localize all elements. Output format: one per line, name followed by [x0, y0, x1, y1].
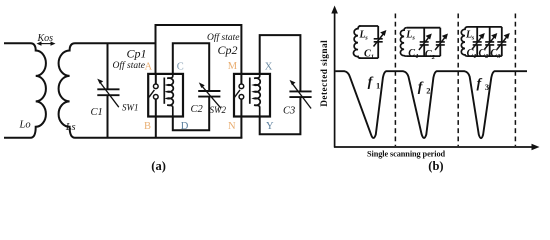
svg-text:C: C	[177, 61, 184, 72]
svg-text:X: X	[265, 62, 273, 73]
svg-text:s: s	[411, 34, 415, 41]
svg-text:Cp1: Cp1	[127, 47, 147, 61]
svg-text:f: f	[368, 75, 374, 90]
svg-text:M: M	[228, 61, 238, 72]
svg-text:2: 2	[426, 86, 430, 96]
svg-text:Off state: Off state	[207, 32, 239, 43]
svg-text:1: 1	[376, 81, 380, 91]
svg-text:3: 3	[485, 82, 489, 92]
svg-text:C1: C1	[91, 107, 103, 118]
svg-text:SW1: SW1	[122, 103, 139, 113]
svg-text:Detected signal: Detected signal	[320, 40, 330, 107]
svg-text:1: 1	[371, 54, 374, 61]
svg-text:D: D	[181, 121, 189, 132]
svg-text:Cp2: Cp2	[218, 43, 238, 57]
svg-text:Single scanning period: Single scanning period	[367, 150, 446, 159]
svg-text:2: 2	[484, 53, 489, 60]
svg-text:2: 2	[431, 54, 436, 61]
svg-text:1: 1	[473, 53, 476, 60]
svg-text:SW2: SW2	[210, 105, 227, 115]
svg-text:Ls: Ls	[65, 122, 76, 133]
svg-text:N: N	[228, 121, 236, 132]
svg-text:B: B	[144, 121, 151, 132]
svg-text:Y: Y	[266, 121, 274, 132]
svg-text:f: f	[477, 76, 483, 91]
svg-text:Kos: Kos	[37, 33, 54, 44]
svg-text:(a): (a)	[151, 159, 166, 173]
svg-text:C: C	[408, 48, 415, 59]
svg-text:s: s	[471, 34, 475, 41]
svg-text:L: L	[405, 29, 412, 40]
svg-text:Off state: Off state	[113, 60, 145, 71]
svg-text:(b): (b)	[428, 159, 443, 173]
svg-text:s: s	[364, 35, 368, 42]
svg-text:Lo: Lo	[19, 120, 31, 131]
svg-text:C2: C2	[191, 104, 204, 115]
svg-text:3: 3	[496, 53, 501, 60]
svg-text:1: 1	[416, 53, 419, 60]
svg-text:C3: C3	[283, 106, 295, 117]
svg-text:f: f	[418, 80, 424, 95]
svg-text:A: A	[145, 61, 153, 72]
